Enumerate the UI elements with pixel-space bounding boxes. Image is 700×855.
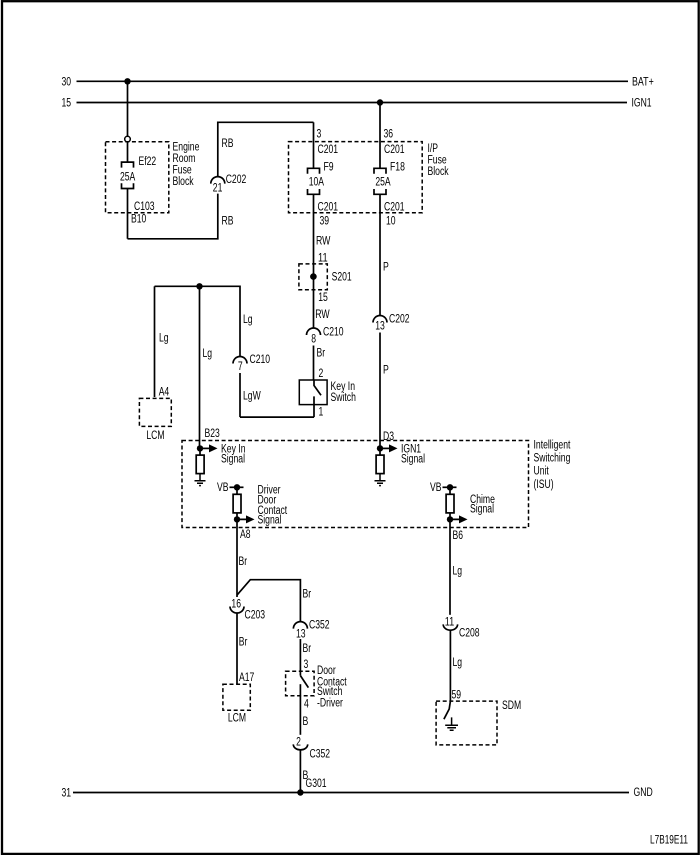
connector C352 pin 13 arc [293, 622, 307, 629]
resistor Key In Signal [199, 448, 201, 455]
wire from F9 down through splice S201 to connector C210 pin 8 [313, 194, 315, 328]
wire Br from C203 pin 16 to LCM pin A17 [236, 613, 238, 684]
connector C203 pin 16 arc [230, 607, 244, 614]
svg-text:C203: C203 [245, 610, 266, 622]
svg-text:31: 31 [62, 788, 72, 800]
svg-text:Switch: Switch [331, 392, 356, 404]
Door Contact Switch box [286, 671, 315, 696]
svg-text:D3: D3 [383, 431, 394, 443]
wire B from Door Contact Switch pin 4 down to C352 pin 2 [299, 684, 301, 735]
svg-text:Switching: Switching [534, 453, 571, 465]
svg-text:36: 36 [384, 129, 394, 141]
svg-text:15: 15 [62, 98, 72, 110]
svg-text:RW: RW [315, 309, 330, 321]
svg-text:11: 11 [445, 617, 455, 629]
svg-text:3: 3 [304, 659, 309, 671]
connector C202 pin 13 arc [373, 316, 387, 323]
svg-text:Engine: Engine [173, 142, 200, 154]
svg-text:Br: Br [239, 636, 248, 648]
wire from BAT+ down to Engine Room Fuse Block [127, 81, 129, 136]
svg-text:Fuse: Fuse [173, 165, 192, 177]
svg-text:P: P [383, 365, 389, 377]
svg-text:-Driver: -Driver [317, 698, 343, 710]
svg-text:B6: B6 [453, 530, 464, 542]
svg-text:B10: B10 [131, 214, 146, 226]
SDM box [436, 701, 497, 745]
svg-text:C201: C201 [318, 144, 339, 156]
svg-text:Lg: Lg [159, 333, 169, 345]
wire Br from ISU pin A8 down [236, 519, 238, 597]
svg-text:Ef22: Ef22 [139, 156, 157, 168]
svg-text:A4: A4 [159, 387, 170, 399]
svg-text:Signal: Signal [258, 515, 282, 527]
terminal circle at Engine Room Fuse Block [125, 136, 131, 142]
junction dot on BAT+ line [124, 78, 130, 84]
net GND bus line 31 [73, 792, 629, 794]
svg-text:BAT+: BAT+ [632, 76, 654, 88]
resistor Chime Signal [449, 487, 451, 494]
svg-text:Br: Br [303, 589, 312, 601]
svg-text:2: 2 [319, 368, 324, 380]
svg-text:10A: 10A [309, 176, 325, 188]
resistor IGN1 Signal [379, 448, 381, 455]
svg-text:7: 7 [238, 361, 243, 373]
wire branch to door contact switch [237, 580, 300, 622]
svg-text:30: 30 [62, 76, 72, 88]
splice S201 dot [310, 273, 317, 280]
svg-text:11: 11 [318, 252, 328, 264]
svg-text:LCM: LCM [146, 430, 164, 442]
resistor Driver Door Contact [236, 487, 238, 494]
svg-text:16: 16 [231, 599, 241, 611]
svg-text:10: 10 [386, 216, 396, 228]
wire Lg down to ISU pin B23 [199, 286, 201, 448]
SDM switch blade [444, 701, 451, 719]
svg-text:C352: C352 [309, 620, 330, 632]
svg-text:Br: Br [239, 556, 248, 568]
svg-text:C352: C352 [310, 749, 331, 761]
svg-text:15: 15 [318, 292, 328, 304]
svg-text:13: 13 [296, 629, 306, 641]
svg-text:Block: Block [173, 176, 194, 188]
svg-text:C208: C208 [459, 628, 480, 640]
svg-text:A17: A17 [239, 672, 254, 684]
svg-text:B: B [303, 716, 309, 728]
svg-text:C202: C202 [389, 314, 410, 326]
svg-text:C201: C201 [384, 201, 405, 213]
svg-text:25A: 25A [120, 171, 136, 183]
wire from terminal to fuse Ef22 [127, 142, 129, 162]
chassis ground inside SDM [445, 717, 458, 730]
svg-text:L7B19E11: L7B19E11 [650, 835, 688, 847]
wire P from C202 pin 13 to ISU pin D3 [379, 333, 381, 449]
wire Lg from junction to C210 pin 7 [155, 286, 241, 356]
fuse F18 [374, 168, 386, 194]
svg-text:RB: RB [222, 138, 234, 150]
svg-text:RB: RB [222, 216, 234, 228]
IGN1 Signal arrow [380, 447, 389, 449]
Chime Signal arrow [450, 513, 459, 520]
net BAT+ bus line 30 [77, 80, 629, 82]
wire from fuse Ef22 down [127, 189, 129, 239]
ground at IGN1 Signal resistor [375, 474, 386, 486]
wire LgW up to connector C210 pin 7 [239, 373, 241, 417]
wire P from F18 to connector C202 pin 13 [379, 194, 381, 315]
svg-text:C210: C210 [250, 354, 271, 366]
svg-text:Lg: Lg [453, 566, 463, 578]
svg-text:39: 39 [320, 216, 330, 228]
fuse F9 [308, 168, 320, 194]
svg-text:Br: Br [317, 348, 326, 360]
wire Br from C352 pin 13 to Door Contact Switch pin 3 [299, 639, 301, 676]
svg-text:C201: C201 [318, 201, 339, 213]
svg-text:RW: RW [316, 236, 331, 248]
svg-text:VB: VB [430, 482, 442, 494]
ground G301 junction dot [297, 789, 303, 795]
node A8 junction dot [234, 516, 240, 522]
wire Lg from C208 pin 11 to SDM pin 59 [449, 631, 451, 702]
svg-text:C210: C210 [323, 327, 344, 339]
Driver Door Contact Signal arrow [237, 513, 246, 520]
wire B from C352 pin 2 to ground G301 [299, 750, 301, 793]
svg-text:IGN1: IGN1 [632, 98, 652, 110]
svg-text:3: 3 [317, 129, 322, 141]
I/P Fuse Block box [289, 142, 423, 213]
svg-text:4: 4 [304, 699, 309, 711]
svg-text:G301: G301 [306, 778, 327, 790]
Key In Switch box [299, 380, 327, 405]
svg-text:Switch: Switch [317, 686, 342, 698]
svg-text:LCM: LCM [228, 713, 246, 725]
wire from IGN1 bus down to fuse F18 [379, 103, 381, 169]
svg-text:Door: Door [317, 665, 336, 677]
svg-text:F18: F18 [390, 162, 405, 174]
Door Contact Switch blade [300, 676, 308, 688]
svg-text:Lg: Lg [453, 657, 463, 669]
svg-text:SDM: SDM [502, 700, 521, 712]
wire Lg from ISU pin B6 down [449, 519, 451, 614]
svg-text:VB: VB [217, 482, 229, 494]
svg-text:Fuse: Fuse [428, 155, 447, 167]
connector C210 pin 7 arc [233, 357, 247, 364]
svg-text:Intelligent: Intelligent [534, 440, 571, 452]
svg-text:59: 59 [452, 690, 462, 702]
svg-text:S201: S201 [332, 272, 352, 284]
svg-text:A8: A8 [240, 529, 251, 541]
svg-text:13: 13 [375, 320, 385, 332]
wire RB from C202 pin21 up and right to I/P fuse block pin 3 [218, 122, 314, 176]
Key In Signal arrow [200, 447, 209, 449]
svg-text:B23: B23 [205, 428, 220, 440]
junction dot on IGN1 line [377, 99, 383, 105]
svg-text:C202: C202 [226, 174, 247, 186]
net VB stub at driver door resistor [230, 486, 244, 488]
Key In Switch contacts and blade [314, 380, 321, 417]
node B6 junction dot [447, 516, 453, 522]
svg-text:I/P: I/P [428, 143, 439, 155]
splice S201 box [299, 264, 327, 290]
wire from Key In Switch pin 1 left [240, 416, 314, 418]
connector C208 pin 11 arc [443, 624, 457, 630]
svg-text:21: 21 [213, 182, 223, 194]
svg-text:Block: Block [428, 166, 449, 178]
svg-text:Signal: Signal [401, 453, 425, 465]
svg-text:(ISU): (ISU) [534, 479, 554, 491]
fuse Ef22 [122, 162, 134, 188]
ISU box [182, 441, 529, 528]
wire RB from Ef22 to connector C202 pin 21 [128, 194, 218, 239]
svg-text:GND: GND [634, 787, 653, 799]
svg-text:Signal: Signal [470, 504, 494, 516]
wire Br from C210 pin 8 to Key In Switch pin 2 [313, 346, 315, 381]
node VB dot (driver) [234, 484, 240, 490]
wire Lg down to LCM pin A4 [154, 286, 156, 397]
svg-text:2: 2 [296, 737, 301, 749]
svg-text:Lg: Lg [203, 348, 213, 360]
svg-text:P: P [383, 262, 389, 274]
connector C202 pin 21 arc [211, 177, 225, 184]
net VB stub at chime resistor [443, 486, 457, 488]
svg-text:Unit: Unit [534, 466, 550, 478]
node D3 junction dot [377, 445, 383, 451]
svg-text:LgW: LgW [243, 391, 261, 403]
node B23 junction dot [197, 445, 203, 451]
connector C352 pin 2 arc [293, 744, 307, 750]
node VB dot (chime) [447, 484, 453, 490]
svg-text:Signal: Signal [221, 453, 245, 465]
LCM box (A4) [139, 398, 171, 426]
junction dot on Lg wire [196, 283, 202, 289]
net IGN1 bus line 15 [77, 102, 628, 104]
ground at Key In Signal resistor [195, 474, 206, 486]
LCM box (A17) [223, 684, 250, 710]
svg-text:Lg: Lg [243, 314, 253, 326]
svg-text:25A: 25A [375, 176, 391, 188]
svg-text:1: 1 [319, 407, 324, 419]
svg-text:C103: C103 [134, 201, 155, 213]
Engine Room Fuse Block box [106, 142, 169, 213]
svg-text:Room: Room [173, 153, 196, 165]
svg-text:C201: C201 [384, 144, 405, 156]
svg-text:8: 8 [311, 334, 316, 346]
connector C210 pin 8 arc [307, 328, 321, 335]
svg-text:F9: F9 [324, 162, 334, 174]
wire pin 3 into I/P fuse block to fuse F9 [313, 122, 315, 168]
svg-text:Br: Br [303, 643, 312, 655]
